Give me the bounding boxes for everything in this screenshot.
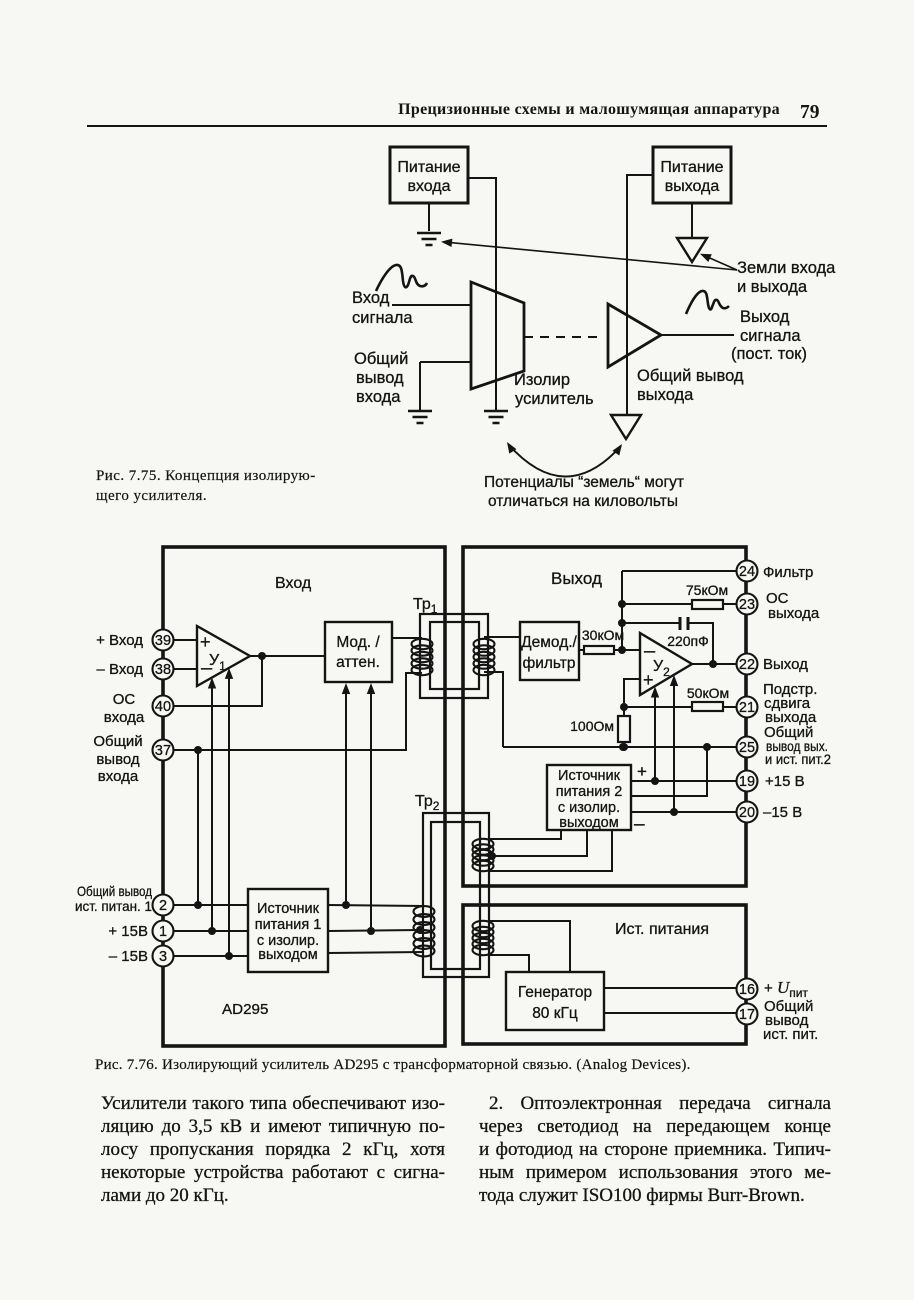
transformer Тр2 core inner — [431, 822, 480, 969]
wire: supply 1 up to modulator — [345, 693, 347, 905]
svg-text:– 15В: – 15В — [109, 948, 148, 965]
svg-text:Ист. питания: Ист. питания — [615, 921, 709, 938]
svg-text:выхода: выхода — [637, 386, 694, 404]
svg-text:Выход: Выход — [551, 569, 602, 588]
pointer line: to input earth — [444, 242, 737, 270]
coil: Тр2 secondary winding (supply 2) — [473, 839, 494, 871]
arrowhead: +15V into У2 — [651, 687, 659, 698]
svg-text:вывод: вывод — [96, 751, 140, 768]
ground: signal input common earth — [408, 411, 432, 423]
svg-text:Питание: Питание — [397, 159, 460, 176]
junction: pin 2 node — [194, 901, 202, 909]
svg-text:усилитель: усилитель — [515, 390, 594, 408]
wire: node to capacitor — [622, 622, 679, 624]
arrowhead: +15V into У1 — [208, 678, 216, 689]
wire: pin 25 output common bus — [503, 746, 736, 748]
enclosure: output section box (Выход) — [463, 547, 746, 886]
svg-text:выходом: выходом — [258, 947, 317, 963]
svg-text:39: 39 — [155, 633, 171, 649]
junction: У2 - input node — [618, 646, 626, 654]
resistor 100 Ohm — [618, 716, 630, 742]
svg-text:Тр2: Тр2 — [415, 793, 440, 813]
svg-text:24: 24 — [739, 564, 755, 580]
svg-text:Источник: Источник — [257, 901, 320, 917]
wire: +15V up to У2 — [654, 697, 656, 781]
svg-text:входа: входа — [407, 178, 450, 195]
svg-text:+: + — [637, 762, 647, 781]
header rule — [87, 125, 827, 127]
svg-text:выхода: выхода — [665, 178, 720, 195]
wire: generator to pin 17 — [604, 1012, 736, 1014]
junction: -15V branch to У2 — [670, 808, 678, 816]
svg-text:+: + — [200, 632, 211, 652]
svg-text:30кОм: 30кОм — [582, 627, 624, 643]
svg-text:вывод: вывод — [356, 369, 404, 387]
svg-text:Общий вывод: Общий вывод — [637, 367, 744, 385]
pin 21 (Подстр. сдвига выхода) — [737, 697, 758, 718]
wire: supply1 out bottom to Тр2 primary — [328, 952, 424, 953]
wire: 50k to + input node — [624, 706, 692, 708]
wire: Тр1 secondary top to demodulator — [484, 636, 520, 638]
junction: +15V branch — [208, 927, 216, 935]
svg-text:отличаться на киловольты: отличаться на киловольты — [488, 493, 678, 510]
wire: input common — [420, 361, 471, 363]
pin 17 (Общий вывод ист. пит.) — [737, 1004, 758, 1025]
wire: output supply into output amp — [627, 175, 653, 414]
wire: generator to Тр2 winding bottom — [488, 955, 529, 972]
svg-text:+ Uпит: + Uпит — [764, 978, 808, 1000]
coil: Тр2 winding to generator — [473, 921, 494, 955]
svg-text:2: 2 — [159, 898, 167, 914]
pin 3 (−15В) — [153, 946, 174, 967]
wire: input common down to ground — [419, 362, 421, 410]
wire: У1 output to modulator — [250, 655, 325, 657]
wire: supply line visible inside trapezoid — [495, 292, 497, 382]
wire: demod out — [579, 649, 584, 651]
svg-text:100Ом: 100Ом — [570, 718, 614, 734]
svg-text:и ист. пит.2: и ист. пит.2 — [765, 751, 831, 767]
svg-text:50кОм: 50кОм — [687, 685, 729, 701]
op-amp: output amplifier triangle — [608, 304, 661, 367]
wire: input supply to isolation amp — [468, 178, 496, 410]
waveform squiggle at signal output — [686, 291, 729, 314]
wire: modulator to Тр1 primary top — [392, 637, 422, 639]
wire: pin 1 (+15V) to supply 1 — [174, 930, 248, 932]
junction: -15V branch — [225, 952, 233, 960]
pin 1 (+15В) — [153, 921, 174, 942]
svg-text:+: + — [643, 670, 654, 690]
block: input power supply (Питание входа) — [390, 147, 468, 203]
wire: pin 3 (-15V) to supply 1 — [174, 955, 248, 957]
pin 38 (−Вход) — [153, 659, 174, 680]
svg-text:AD295: AD295 — [222, 1001, 268, 1018]
wire: dashed isolation barrier link — [524, 336, 604, 338]
pin 16 (+Uпит) — [737, 979, 758, 1000]
body text: left column — [101, 1092, 445, 1207]
svg-text:220пФ: 220пФ — [667, 633, 709, 649]
pin 24 (Фильтр) — [737, 561, 758, 582]
svg-text:+ Вход: + Вход — [96, 632, 143, 649]
junction: У1 output node — [258, 652, 266, 660]
wire: supply2 winding lead 1 — [490, 830, 561, 839]
wire: 30k to У2 inverting input — [614, 649, 640, 651]
svg-text:питания 1: питания 1 — [255, 917, 322, 933]
wire: supply2 + to pin 19 — [631, 780, 736, 782]
svg-text:входа: входа — [104, 709, 145, 726]
arrowhead: supply into modulator — [342, 683, 350, 694]
wire: generator to Тр2 winding top — [488, 921, 570, 972]
svg-text:+ 15В: + 15В — [108, 923, 148, 940]
wire: input common to supply common (pin 2) — [197, 750, 199, 905]
wire: supply 1 up to modulator 2 — [370, 693, 372, 931]
svg-text:Демод./: Демод./ — [521, 634, 577, 651]
svg-text:выхода: выхода — [768, 605, 820, 622]
transformer Тр2 core outer — [423, 813, 489, 977]
block: output power supply (Питание выхода) — [653, 147, 731, 203]
svg-text:Источник: Источник — [558, 768, 621, 784]
svg-text:80 кГц: 80 кГц — [532, 1005, 578, 1022]
caption figure 7.76 — [95, 1057, 755, 1074]
waveform squiggle at signal input — [376, 265, 427, 291]
ground: output supply earth (triangle) — [677, 238, 707, 262]
pin 37 (Общий вывод входа) — [153, 740, 174, 761]
block: Источник питания 1 с изолир. выходом — [248, 889, 328, 972]
wire: pin 38 to op-amp У1 - — [174, 668, 197, 670]
svg-text:ист. питан. 1: ист. питан. 1 — [75, 898, 152, 914]
block: modulator/attenuator (Мод./аттен.) — [325, 622, 392, 682]
block: Генератор 80 кГц — [506, 972, 604, 1030]
wire: summing node up to pin 24 — [621, 571, 623, 650]
coil: Тр2 primary winding (supply 1) — [414, 906, 435, 956]
svg-text:Генератор: Генератор — [518, 984, 592, 1001]
resistor 75 kOhm — [692, 600, 723, 609]
wire: node to 75k — [622, 603, 692, 605]
wire: supply1 out top to Тр2 primary — [328, 905, 424, 906]
svg-text:75кОм: 75кОм — [686, 582, 728, 598]
junction: 50k node — [620, 703, 628, 711]
wire: supply1 out mid to Тр2 center tap — [328, 930, 419, 931]
svg-text:3: 3 — [159, 949, 167, 965]
arrowhead: -15V into У2 — [670, 675, 678, 686]
op-amp: isolation amplifier input section (trapezoid) — [471, 282, 524, 389]
pin 22 (Выход) — [737, 654, 758, 675]
resistor 30 kOhm — [584, 646, 614, 654]
block: demodulator/filter (Демод./фильтр) — [520, 622, 579, 680]
wire: Тр1 secondary bottom to output common — [484, 672, 503, 747]
svg-text:Земли входа: Земли входа — [737, 259, 836, 277]
svg-text:20: 20 — [739, 805, 755, 821]
svg-text:Потенциалы “земель“ могут: Потенциалы “земель“ могут — [484, 474, 684, 491]
caption figure 7.75 — [96, 466, 376, 506]
pin 19 (+15В) — [737, 771, 758, 792]
svg-text:16: 16 — [739, 982, 755, 998]
wire: pin 37 input common to Тр1 primary — [174, 673, 422, 750]
svg-text:– Вход: – Вход — [97, 661, 144, 678]
svg-text:Выход: Выход — [763, 656, 808, 673]
svg-text:фильтр: фильтр — [522, 655, 575, 672]
curved arrow: grounds may differ by kilovolts — [508, 444, 621, 477]
pin 20 (−15В) — [737, 802, 758, 823]
wire: 75k to pin 23 — [723, 603, 736, 605]
transformer Тр1 core outer — [420, 614, 488, 698]
svg-text:Мод. /: Мод. / — [336, 634, 380, 651]
pin 25 (Общий вывод вых.) — [737, 737, 758, 758]
wire: supply2 - to pin 20 — [631, 811, 736, 813]
arrowhead left end of curved arrow — [507, 442, 516, 454]
ground: input supply earth — [417, 233, 441, 245]
svg-text:ОС: ОС — [113, 691, 136, 708]
junction: feedback cap — [618, 619, 626, 627]
arrowhead at output earth — [700, 254, 712, 262]
coil: Тр1 secondary winding — [474, 639, 495, 675]
svg-text:Фильтр: Фильтр — [763, 564, 813, 581]
svg-text:Изолир: Изолир — [514, 371, 570, 389]
svg-text:19: 19 — [739, 774, 755, 790]
coil: Тр1 primary winding — [412, 639, 433, 675]
svg-text:Вход: Вход — [275, 575, 312, 592]
svg-text:Питание: Питание — [660, 159, 723, 176]
svg-text:–15 В: –15 В — [763, 804, 802, 821]
junction: feedback 75k — [618, 600, 626, 608]
svg-text:Общий: Общий — [93, 733, 142, 750]
svg-text:37: 37 — [155, 743, 171, 759]
junction: Тр2 primary center tap — [416, 926, 424, 934]
svg-text:ист. пит.: ист. пит. — [763, 1026, 818, 1043]
svg-text:входа: входа — [356, 388, 401, 406]
junction: supply1 mid branch — [367, 927, 375, 935]
wire: signal output — [661, 334, 734, 336]
svg-text:выходом: выходом — [559, 815, 618, 831]
wire: -15V up to У2 — [673, 685, 675, 812]
svg-text:аттен.: аттен. — [336, 654, 380, 671]
svg-text:23: 23 — [739, 597, 755, 613]
svg-text:Вход: Вход — [352, 289, 390, 307]
wire: -15V up to У1 — [228, 678, 230, 956]
junction: supply1 top branch — [342, 901, 350, 909]
junction: 100 Ohm bottom — [620, 743, 628, 751]
wire: pin 2 to supply 1 — [174, 904, 248, 906]
svg-text:38: 38 — [155, 662, 171, 678]
junction: 100 Ohm to common — [619, 743, 627, 751]
svg-text:22: 22 — [739, 657, 755, 673]
svg-text:+15 В: +15 В — [765, 773, 805, 790]
ground: isolation amp input common earth — [484, 411, 508, 423]
svg-text:17: 17 — [739, 1007, 755, 1023]
wire: generator to pin 16 — [604, 987, 736, 989]
wire: output supply to chassis triangle — [691, 203, 693, 237]
svg-text:–: – — [634, 814, 645, 835]
wire: pin 40 feedback to У1 output — [174, 656, 262, 706]
op-amp У2 — [640, 633, 692, 695]
svg-text:сигнала: сигнала — [740, 327, 801, 345]
wire: pin 39 to op-amp У1 + — [174, 639, 197, 641]
wire: output common down — [626, 367, 628, 414]
transformer Тр1 core inner — [430, 622, 479, 689]
junction: input common node — [194, 746, 202, 754]
pin 39 (+Вход) — [153, 630, 174, 651]
svg-text:и выхода: и выхода — [737, 278, 808, 296]
enclosure: power source box (Ист. питания) — [463, 905, 746, 1044]
op-amp У1 — [197, 626, 250, 686]
wire: supply2 common to pin25 bus — [631, 747, 707, 796]
svg-text:с изолир.: с изолир. — [558, 800, 620, 816]
svg-text:Общий: Общий — [354, 350, 408, 368]
arrowhead: supply into modulator 2 — [367, 683, 375, 694]
arrowhead at input earth — [441, 239, 452, 247]
wire: capacitor to У2 output — [689, 623, 713, 664]
svg-text:входа: входа — [98, 768, 139, 785]
svg-text:21: 21 — [739, 700, 755, 716]
wire: supply2 winding center tap lead — [490, 830, 587, 856]
junction: +15V branch to У2 — [651, 777, 659, 785]
capacitor 220 пФ — [680, 617, 688, 630]
junction: supply2 common branch — [703, 743, 711, 751]
pointer line: to output earth triangle — [703, 255, 737, 270]
ground: output common earth (triangle) — [611, 415, 641, 439]
junction: output/cap node — [709, 660, 717, 668]
svg-text:сигнала: сигнала — [352, 309, 413, 327]
block: Источник питания 2 с изолир. выходом — [547, 765, 631, 830]
svg-text:1: 1 — [159, 924, 167, 940]
svg-text:25: 25 — [739, 740, 755, 756]
enclosure: input section box (Вход / AD295) — [163, 547, 445, 1046]
svg-text:питания 2: питания 2 — [556, 784, 623, 800]
svg-text:Выход: Выход — [740, 308, 790, 326]
page number 79 — [800, 102, 820, 124]
pin 2 (Общий вывод ист. питан. 1) — [153, 895, 174, 916]
wire: +15V up to У1 — [211, 688, 213, 931]
wire: signal input — [392, 304, 471, 306]
wire: У2 output to pin 22 — [692, 663, 736, 665]
wire: supply2 winding lead 2 — [490, 830, 612, 871]
arrowhead: -15V into У1 — [225, 668, 233, 679]
svg-text:40: 40 — [155, 699, 171, 715]
pin 23 (ОС выхода) — [737, 594, 758, 615]
arrowhead right end of curved arrow — [612, 444, 622, 456]
resistor 50 kOhm — [692, 702, 723, 711]
body text: right column — [479, 1092, 831, 1207]
wire: У2 + input to divider — [624, 679, 640, 747]
wire: input supply to ground — [428, 203, 430, 231]
wire: 50k to pin 21 — [723, 706, 736, 708]
wire: pin 24 (filter) — [622, 570, 736, 572]
pin 40 (ОС входа) — [153, 696, 174, 717]
svg-text:(пост. ток): (пост. ток) — [731, 345, 807, 363]
page header: running title — [0, 101, 780, 119]
junction: Тр2 secondary center tap — [488, 852, 496, 860]
svg-text:Общий вывод: Общий вывод — [77, 883, 152, 899]
